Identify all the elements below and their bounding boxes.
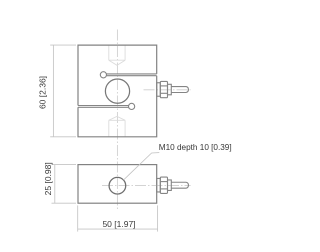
cable gland flange (front view)	[157, 83, 161, 97]
cable gland nose (bottom view)	[168, 180, 172, 191]
bottom tapped hole M10 (hidden lines)	[109, 116, 125, 136]
M10 hole circle (bottom view)	[109, 177, 126, 194]
dimension 60 [2.36] extension lines	[50, 44, 76, 46]
vertical centerline (both views)	[116, 30, 118, 210]
cable (bottom view)	[171, 182, 188, 188]
svg-text:60 [2.36]: 60 [2.36]	[38, 76, 48, 109]
upper slot	[100, 72, 156, 78]
cable gland hex nut (front view)	[160, 81, 167, 97]
cable (front view)	[171, 87, 188, 93]
dimension 25 [0.98] line	[54, 165, 56, 204]
bottom view body outline	[78, 165, 157, 204]
bottom view horizontal centerline	[102, 184, 191, 186]
cable gland hex nut (bottom view)	[160, 177, 167, 193]
dimension 50 [1.97] line	[78, 228, 158, 230]
svg-text:50 [1.97]: 50 [1.97]	[102, 219, 135, 229]
svg-text:M10 depth 10 [0.39]: M10 depth 10 [0.39]	[159, 143, 232, 152]
center hole (front view)	[105, 79, 129, 103]
front view body outline	[78, 45, 157, 137]
leader line to M10 hole	[124, 153, 160, 180]
svg-text:25 [0.98]: 25 [0.98]	[43, 162, 53, 195]
dimension 50 [1.97] extension lines	[77, 205, 79, 231]
cable gland nose (front view)	[168, 84, 172, 95]
cable gland flange (bottom view)	[157, 178, 161, 192]
top tapped hole M10 (hidden lines)	[109, 45, 125, 65]
dimension 25 [0.98] extension lines	[52, 164, 77, 166]
lower slot	[78, 103, 135, 109]
front view horizontal centerline	[144, 89, 191, 91]
dimension 60 [2.36] line	[52, 45, 54, 137]
